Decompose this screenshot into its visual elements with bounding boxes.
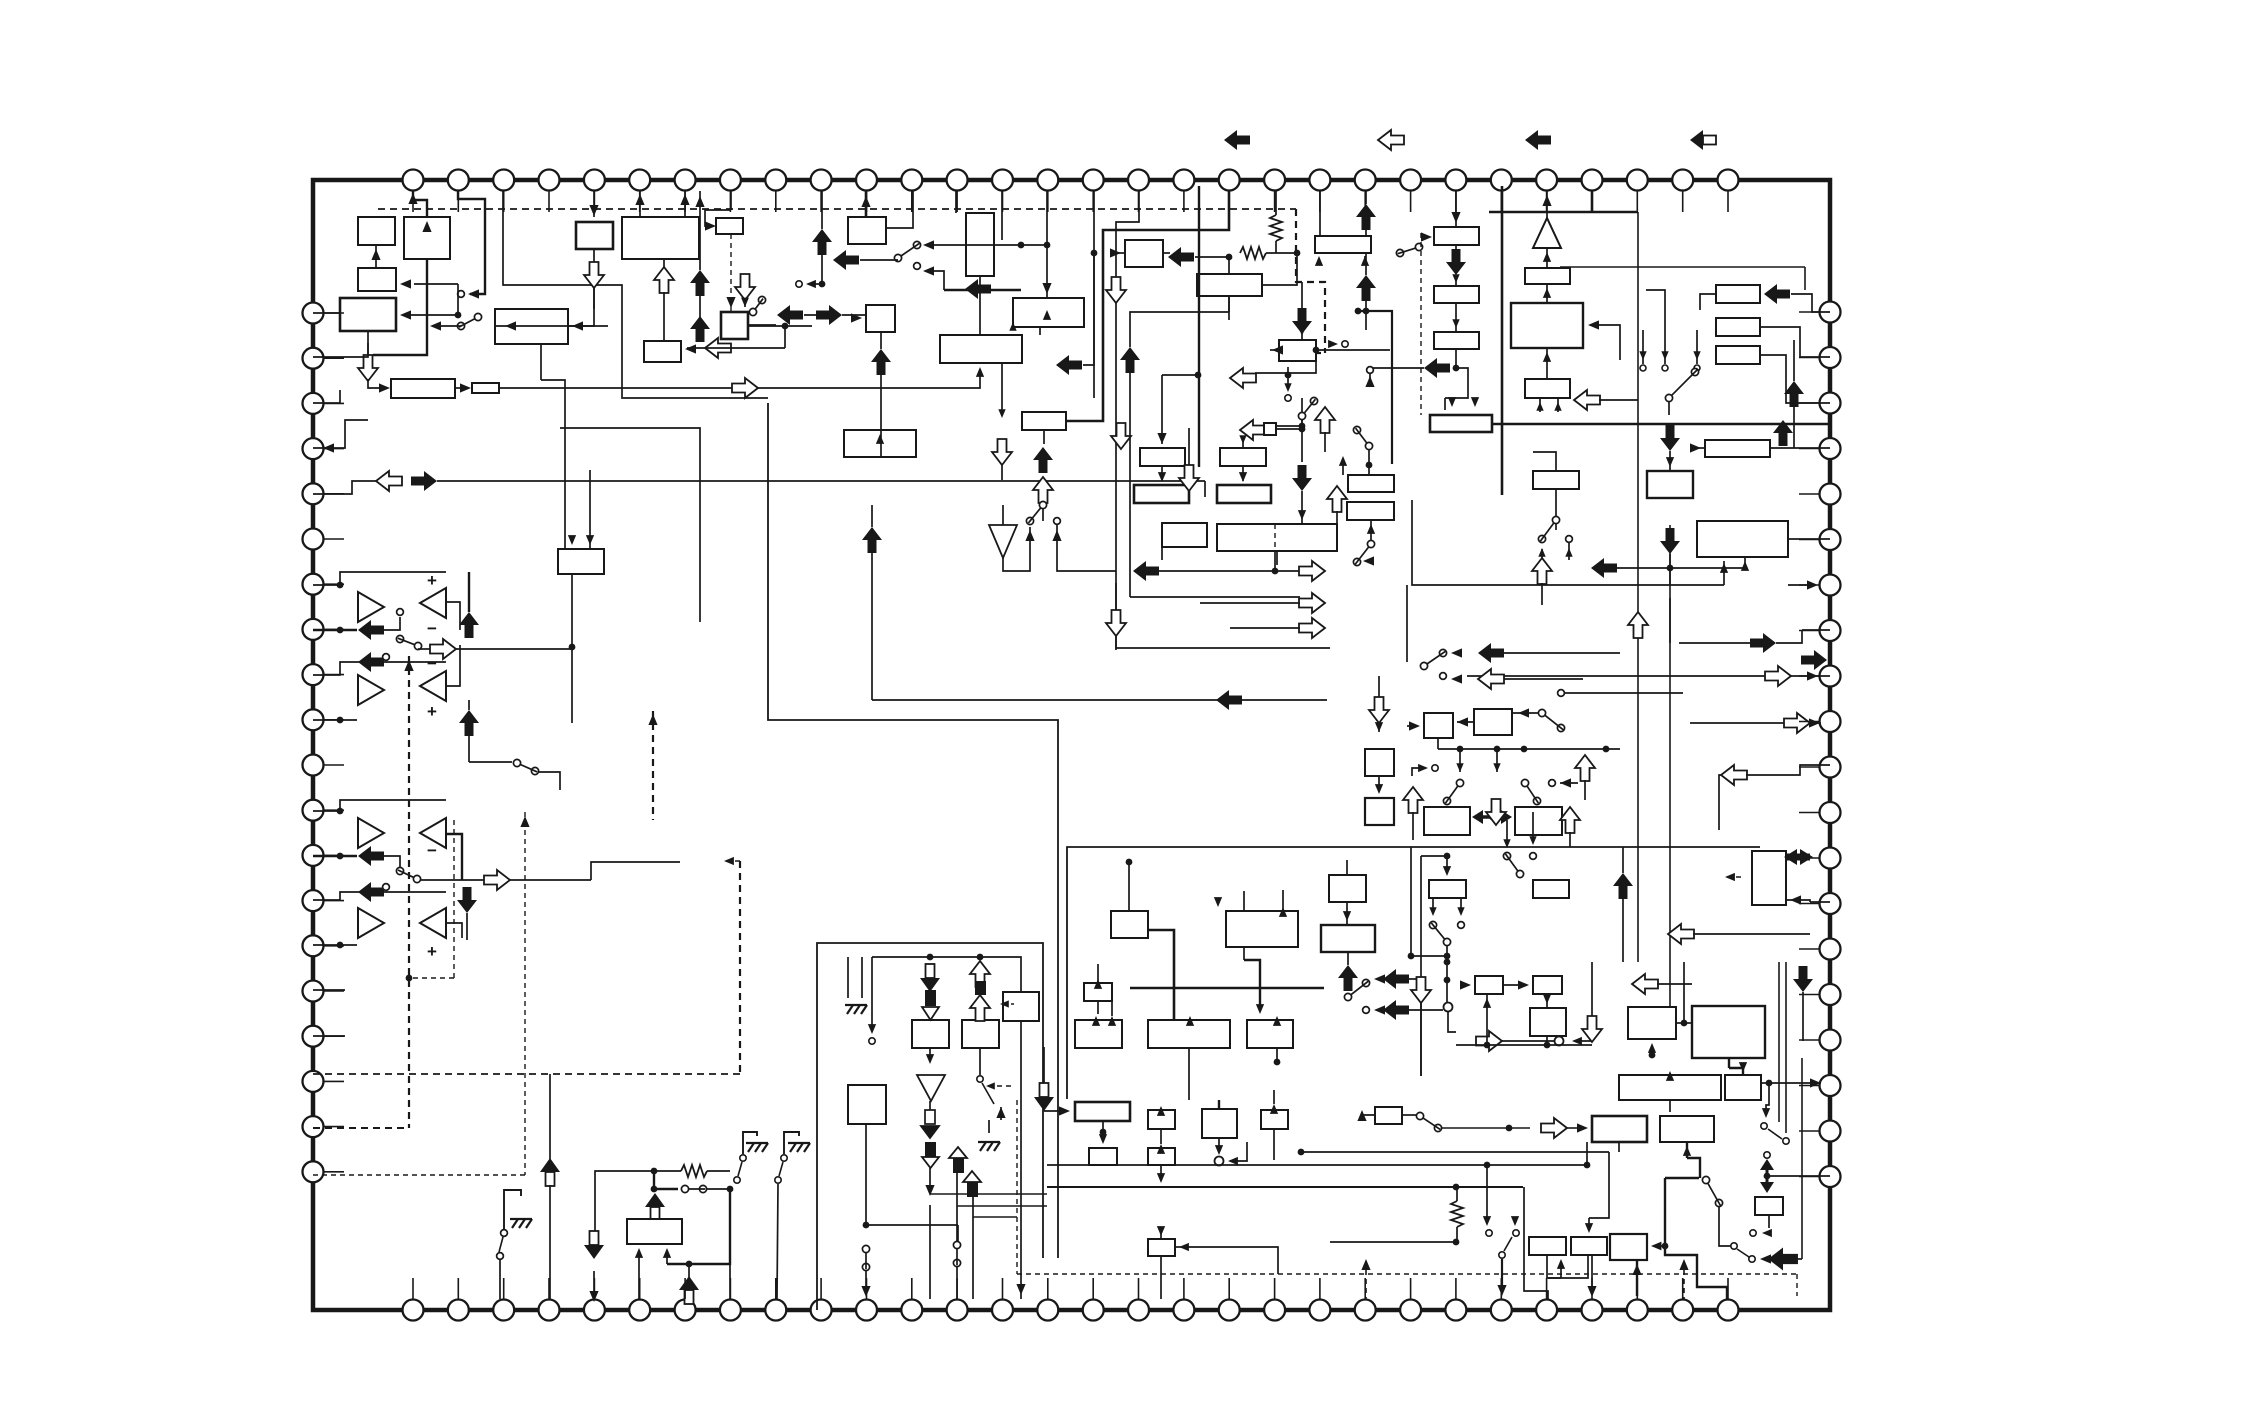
wire B32 in [1700,294,1716,310]
black arrow up A25 [1120,347,1140,373]
arrowhead pin down [589,1291,598,1302]
wire A80 up [688,1264,690,1278]
pin top 4 [539,170,560,191]
wire B23 in [1161,375,1163,444]
pin bottom 6 [629,1300,650,1321]
wire A25 up elbow [1130,312,1229,347]
pin right 20 [1820,1166,1841,1187]
pin top 18 [1173,170,1194,191]
wire B64-B65 [1546,994,1548,1008]
block B90 [1424,807,1470,835]
arrowhead B41 in [1239,472,1247,482]
wire A6 up [699,295,701,318]
spacer [1409,1009,1448,1011]
arrowhead into B54 left [1739,529,1741,531]
pin bottom 29 stub [1682,1278,1684,1299]
wire to B54 [1744,557,1746,568]
block B21 [1197,274,1262,296]
switch S21 [1429,921,1450,945]
wire A52 to A55 [1669,598,1671,643]
arrowhead S39 [1339,456,1347,466]
block B87 [1315,236,1371,253]
thick bus y212 [1489,211,1638,214]
wire B11-B12 [455,387,466,389]
wire A28 [1301,334,1303,340]
junction y749 x1460 [1457,746,1464,753]
wire B84 from bus [1589,1152,1609,1218]
wire y585 up [1723,561,1725,585]
junction B85 [1662,1243,1669,1250]
block B26 [1434,227,1479,245]
wire A73 up [1622,847,1624,873]
pin left 14 stub [324,900,344,902]
wire B80 left [1362,1112,1375,1115]
spacer [1273,1075,1275,1088]
switch throw [1549,780,1556,787]
block B1 [358,217,395,245]
pin bottom 11 stub [866,1278,868,1299]
pin left 6 [303,529,324,550]
pin right 4 stub [1799,448,1819,450]
pin top 25 stub [1500,191,1502,212]
arrowhead B70 dashed [1725,873,1735,881]
junction R3b [651,1186,658,1193]
cap line a [847,957,849,998]
junction B22 right [1313,347,1320,354]
switch throw S26b [497,1253,504,1260]
black arrow down A74 [1793,966,1813,992]
junction opamp3 b [337,853,344,860]
arrowhead B24 in [1239,435,1246,444]
pin bottom 12 [901,1300,922,1321]
wire y428 elbow [560,428,700,622]
switch S10 [894,241,920,261]
arrowhead B43 in [1298,510,1306,520]
stem arrow A77 [540,1158,560,1186]
wire R2 down [1275,241,1277,253]
junction x1094 [1091,250,1098,257]
ground G4 [746,1143,768,1152]
wire sel a [1642,330,1644,364]
black arrow left A53 [1591,558,1617,578]
bus y1152 [1301,1151,1609,1153]
wire A33a [1455,245,1457,249]
pin top 12 stub [911,191,913,212]
block B30 [1511,303,1583,348]
wire A16 down [468,736,470,762]
arrowhead B29 in [1543,288,1551,298]
wire A55 to pin [1776,630,1802,643]
wire A31 [1042,502,1044,521]
wire A69 [1409,1009,1443,1011]
arrowhead B37 in [1666,457,1674,467]
wire pin8 [730,191,732,210]
wire R1 [1266,252,1297,254]
black arrow up A15 [459,612,479,638]
pin bottom 16 [1083,1300,1104,1321]
arrowhead A82 [1760,1254,1771,1263]
wire A42 [1159,570,1310,572]
pin top 16 stub [1092,191,1094,212]
pin right 8 stub [1799,630,1819,632]
pin right 16 stub [1799,994,1819,996]
pin bottom 10 stub [820,1278,822,1299]
wire to pin R18 [1769,1082,1821,1084]
ground G3 [510,1219,532,1228]
spacer [1091,1165,1093,1299]
junction y1165 [1484,1162,1491,1169]
wire B69 down [1766,1083,1769,1112]
spacer [1095,1048,1097,1060]
pin top 4 stub [548,191,550,212]
pin bottom 27 [1582,1300,1603,1321]
pin bottom 24 [1445,1300,1466,1321]
switch S31 pivot [1499,1252,1505,1258]
arrowhead B26 in [1451,212,1460,223]
arrowhead sel a [1639,351,1646,360]
open arrow down A51 [1179,465,1199,491]
block B61 [1429,880,1466,898]
arrowhead B7 in [705,221,716,230]
switch throw S13b [1054,518,1061,525]
long bus y481 [437,480,1205,482]
open arrow down A87 [735,274,755,300]
wire A71 [1502,1040,1555,1042]
open arrow up A61 [1403,787,1423,813]
block B41t [1217,485,1271,503]
wire A12 [384,617,400,630]
switch S15 [1538,516,1559,542]
open arrow down A32 [992,439,1012,465]
pin right 14 stub [1799,903,1819,905]
wire B21 down [1228,296,1230,312]
wire B85 down [1636,1260,1638,1296]
black arrow left A17 [358,846,384,866]
arrowhead B8 out left [505,321,516,330]
wire y1206 [957,1205,1047,1207]
arrowhead B45 in b [1279,907,1287,917]
wire B45 down [1243,947,1245,960]
spacer [1067,861,1129,863]
wire B59 up [1346,860,1348,875]
junction B75 [1100,1129,1107,1136]
arrowhead node in [1215,1145,1223,1155]
wire A83 up [1365,191,1367,204]
open arrow left A58 [1478,669,1504,689]
wire B70 right [1786,900,1810,902]
wire y1045 [1456,1044,1592,1046]
wire y957 [872,957,1021,992]
bus y749 [1438,748,1620,750]
spacer [1669,415,1671,425]
pin top 17 stub [1138,191,1140,212]
stem arrow down U12 [1034,1083,1054,1111]
dashed horiz y1175 [313,1174,525,1176]
spacer [1514,1187,1516,1222]
pin top 24 stub [1455,191,1457,212]
wire opamp2 bottom [313,719,357,721]
switch throw S22b [1363,1007,1370,1014]
wire A77 up [549,1074,551,1159]
wire pin2 [458,191,485,294]
pin top 14 stub [1002,191,1004,212]
wire S29 down [777,1184,778,1299]
pin bottom 30 stub [1727,1278,1729,1299]
op-amp U7 [358,908,384,938]
switch S5 [396,635,421,649]
spacer [1411,961,1447,963]
arrowhead B47 in b [1108,1016,1116,1026]
wire B57-B58 [1378,776,1380,788]
wire B10 to y348 [749,326,785,348]
wire B78 down [865,1124,867,1225]
arrowhead B63 up [1483,998,1491,1008]
wire pin L1 to B4 [313,312,340,314]
block B36 [1705,440,1770,457]
pin top 2 [448,170,469,191]
wire N3 [1574,1040,1592,1042]
spacer [654,1219,656,1220]
pin bottom 24 stub [1455,1278,1457,1299]
pin bottom 19 [1219,1300,1240,1321]
bus x1638 [1637,212,1639,962]
wire x572 down [571,649,573,723]
pin left 18 [303,1071,324,1092]
spacer [503,1213,505,1233]
junction B69 [1766,1080,1773,1087]
arrowhead pin25 [1542,195,1551,206]
wire B48 down [1188,1048,1190,1100]
arrowhead B47 in [1092,1016,1100,1026]
block B78 [848,1085,886,1124]
junction dashed [406,975,413,982]
dashed drop x1797 [1796,1274,1798,1296]
arrowhead pin 1502 [1497,1285,1506,1296]
pin left 4 [303,438,324,459]
arrowhead dashed out [1328,340,1338,348]
black arrow left A24 [1056,355,1082,375]
arrowhead B77 in [1157,1226,1165,1236]
spacer [1810,720,1830,723]
junction opamp1 [337,582,344,589]
block B85 [1610,1234,1647,1260]
block B48 [1148,1020,1230,1048]
wire y1225 [866,1224,958,1226]
block B58 [1365,798,1394,825]
block B46 [1084,983,1112,1001]
junction x1392 b [1363,308,1370,315]
arrowhead dashed x525 [520,816,529,827]
block B28 [1434,332,1479,349]
spacer [1346,878,1348,880]
pin left 6 stub [324,538,344,540]
arrowhead S10b [923,266,934,275]
black arrow up A39 [1773,420,1793,446]
wire B23 down [1161,466,1163,481]
thick y1178 [1665,1177,1699,1179]
arrowhead A59 [1375,722,1383,732]
wire S10b [925,271,944,290]
junction stack2 [977,954,984,961]
wire into B61 [1446,856,1448,870]
block B34 [1716,346,1760,364]
open arrow down A62 [1486,799,1506,825]
pin right 7 [1820,575,1841,596]
wire B43 divider down [1274,551,1276,571]
wire B8 left [495,325,608,327]
spacer [1746,765,1830,775]
spacer [1785,1145,1787,1150]
wire B33 to pin R2 [1760,327,1830,357]
wire y267 drop [1804,267,1806,290]
switch sel b [1662,365,1668,371]
spacer [1762,1228,1769,1233]
pin right 11 stub [1799,766,1819,768]
arrowhead S23b [1529,836,1536,845]
pin top 9 [765,170,786,191]
pin bottom 9 [765,1300,786,1321]
wire B31 down [1539,398,1541,412]
block B79 [627,1219,682,1244]
pin left 20 stub [324,1171,344,1173]
wire pin L4 [313,420,368,448]
arrowhead B39 in b [586,535,594,545]
wire A65 [1690,722,1784,724]
arrowhead pin6 [635,194,644,205]
wire B65 down [1546,1036,1548,1045]
wire A84 up [1365,262,1367,275]
wire N2 down [1448,1011,1456,1032]
spacer [594,1169,596,1171]
wire B22 to right [1316,349,1390,351]
switch sel a [1640,365,1646,371]
switch throw S23b [1530,853,1537,860]
spacer [911,1019,913,1021]
junction A53 [1667,565,1674,572]
wire A76 [1657,983,1692,985]
spacer [1669,1058,1671,1062]
svg-text:−: − [427,654,437,673]
block B33 [1716,318,1760,336]
arrowhead B61 in [1443,866,1451,876]
spacer [688,1299,690,1302]
switch S25 [953,1241,960,1266]
wire stack3 down [929,1168,931,1194]
pin right 3 stub [1799,402,1819,404]
switch S12 selector [1665,368,1698,401]
wire x1587 [1586,1142,1588,1165]
junction y245 [1018,242,1025,249]
switch S19 [1521,779,1540,804]
wire B28 down [1455,349,1457,368]
wire A63 [1569,832,1571,847]
block B60 [1321,925,1375,952]
open arrow up A60 [1575,755,1595,781]
arrowhead B66 in [1648,1043,1656,1053]
arrowhead pin R18 [1810,1078,1821,1087]
arrowhead A34 [1365,376,1374,387]
arrowhead B84 in [1585,1223,1593,1233]
wire to B21 [1228,257,1230,274]
pin top 2 stub [457,191,459,212]
junction x1198 [1195,372,1202,379]
spacer [847,216,849,218]
pin left 20 [303,1161,324,1182]
black arrow down A37 [1660,425,1680,451]
wire A21 [860,259,898,261]
wire B42 down [1161,547,1163,560]
wire B84 loop [1548,1256,1588,1278]
pin left 9 stub [324,674,344,676]
pin left 17 [303,1026,324,1047]
block B17 [866,305,895,332]
junction S39 [1366,462,1373,469]
dashed bus stub [1302,352,1325,354]
wire x1021 long [1020,1100,1022,1299]
double arrow vert [1760,1159,1774,1193]
arrowhead B46 in [1094,979,1102,989]
wire small up arrow [1000,1107,1002,1120]
black arrow left A82 [1768,1248,1798,1271]
arrowhead B58 in [1375,784,1383,794]
region outline C [1067,847,1760,1099]
wire B22 left [1270,349,1279,351]
junction R3c [727,1186,734,1193]
wire B46 in [1097,964,1099,983]
resistor R1 [1240,247,1266,259]
pin bottom 7 stub [684,1278,686,1299]
switch S39 [1353,426,1372,449]
open arrow right A71 [1476,1031,1502,1051]
pin top 9 stub [775,191,777,212]
wire A34 out [1370,368,1424,380]
arrowhead B5 in [589,205,598,216]
pin right 3 [1820,393,1841,414]
arrowhead S31a [1483,1216,1491,1226]
spacer [1242,432,1244,440]
spacer [593,1258,595,1268]
wire G3 bracket [504,1190,521,1229]
wire stack5 [972,1197,974,1248]
wire B67 down [1728,1058,1730,1068]
wire into B8 top [593,287,595,309]
arrowhead B2 in top [422,221,431,232]
block B89 [1348,475,1394,492]
wire A53 [1617,567,1745,569]
block B32 [1716,285,1760,303]
wire B4 down [367,331,369,358]
wire stack5 to pin [972,1248,974,1299]
wire S23a up [1506,820,1508,840]
pin bottom 25 [1491,1300,1512,1321]
wire B79 in a [638,1252,640,1299]
black arrow left A26 [1168,247,1194,267]
diode stack1 black [925,990,936,1006]
wire B76 down [1160,1165,1162,1180]
wire x1786 [1785,962,1787,1133]
black arrow left A19 [358,882,384,902]
wire B30 right [1590,325,1620,360]
spacer [437,648,455,650]
block B66 [1628,1007,1676,1039]
arrowhead B20 in [1110,248,1121,257]
junction B66-B67 [1681,1020,1688,1027]
wire pin6 to B6 [639,191,641,217]
dashed pin 1683 [1683,1261,1685,1299]
block B31 [1525,379,1570,398]
thick wire B44-B48 [1148,930,1174,1020]
dashed horiz y1274 [1017,1273,1797,1275]
